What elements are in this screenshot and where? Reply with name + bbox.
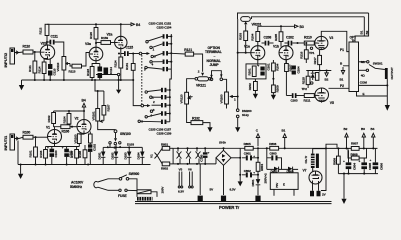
svg-text:Ch-Tr: Ch-Tr bbox=[304, 155, 308, 163]
ground bus channel2 bbox=[22, 79, 134, 81]
svg-text:100V: 100V bbox=[161, 186, 165, 194]
ground symbol PSU bbox=[341, 174, 346, 204]
svg-text:R159: R159 bbox=[101, 36, 108, 40]
svg-text:50/60Hz: 50/60Hz bbox=[70, 185, 82, 189]
triode V1 bbox=[46, 126, 62, 147]
arrow C feed bbox=[256, 129, 260, 147]
capacitor C111 bbox=[47, 35, 64, 57]
svg-text:+: + bbox=[359, 159, 361, 163]
svg-text:B1: B1 bbox=[340, 78, 344, 82]
svg-text:TP2: TP2 bbox=[302, 87, 308, 91]
node grid V2b bbox=[34, 51, 36, 53]
svg-text:C158 C159: C158 C159 bbox=[157, 131, 172, 135]
capacitor C158 bbox=[147, 111, 170, 117]
resistor R209 bbox=[272, 85, 280, 95]
wire jack ground drop bbox=[17, 141, 19, 165]
filter block1 left rail and ground bbox=[238, 148, 243, 186]
capacitor C203 bbox=[286, 93, 304, 102]
cap bank rail2 vertical bbox=[169, 88, 171, 122]
potentiometer VR121 bbox=[195, 77, 211, 88]
capacitor C110 bypass bbox=[48, 59, 56, 81]
supply rail to B4 arrow bbox=[47, 23, 131, 25]
svg-text:C202: C202 bbox=[286, 35, 294, 39]
svg-text:OUTPUT: OUTPUT bbox=[390, 67, 394, 79]
winding pad A bbox=[198, 164, 215, 201]
svg-text:R807: R807 bbox=[351, 142, 358, 146]
capacitor C806 bbox=[370, 148, 384, 173]
wire V4 plate to OPT P2 bbox=[329, 87, 350, 89]
svg-text:+: + bbox=[208, 151, 210, 155]
diode D182 bbox=[110, 147, 118, 164]
svg-text:AC100V: AC100V bbox=[71, 181, 84, 185]
arrow B1 psu bbox=[282, 129, 287, 149]
connector DM200 bbox=[236, 109, 251, 128]
svg-text:R805: R805 bbox=[244, 142, 251, 146]
svg-text:R123: R123 bbox=[86, 69, 90, 76]
capacitor C100 electrolytic bbox=[47, 146, 58, 165]
svg-text:V1a: V1a bbox=[244, 44, 250, 48]
capacitor C180 bbox=[199, 147, 209, 165]
cathode box V1a with R201 C201 bbox=[246, 63, 270, 81]
power transformer core bbox=[135, 202, 332, 204]
svg-text:R102: R102 bbox=[47, 115, 51, 122]
selector SW100 pole B contacts bbox=[138, 91, 155, 124]
svg-text:C111: C111 bbox=[51, 35, 59, 39]
svg-text:P1: P1 bbox=[340, 48, 344, 52]
capacitor C154 bbox=[147, 67, 171, 71]
resistor R111 bbox=[28, 52, 37, 80]
bridge top feed wire bbox=[206, 147, 327, 149]
svg-text:E: E bbox=[283, 183, 285, 187]
switch SW201 bbox=[369, 62, 385, 70]
svg-text:B3: B3 bbox=[300, 25, 304, 29]
svg-text:R132: R132 bbox=[192, 117, 200, 121]
cap bank labels top C150-C154 bbox=[149, 22, 172, 30]
capacitor C803 bbox=[267, 152, 282, 165]
ground symbol DM200 bbox=[235, 127, 240, 132]
svg-text:C204: C204 bbox=[296, 66, 300, 73]
arrow B4 psu bbox=[371, 127, 376, 148]
svg-text:VR110: VR110 bbox=[56, 62, 60, 71]
svg-text:VR120: VR120 bbox=[179, 94, 183, 103]
resistor R802 bbox=[157, 156, 173, 171]
svg-text:R105: R105 bbox=[70, 151, 74, 158]
B1 tap arrow OPT bbox=[340, 62, 350, 82]
svg-text:C803: C803 bbox=[270, 152, 277, 156]
svg-text:R217: R217 bbox=[313, 57, 317, 64]
capacitor C203b bbox=[302, 87, 308, 91]
svg-text:R203: R203 bbox=[239, 33, 243, 40]
svg-text:VR100: VR100 bbox=[73, 134, 77, 143]
heater rails bbox=[173, 147, 216, 165]
svg-text:POWER Tr: POWER Tr bbox=[219, 205, 240, 210]
capacitor C207 bbox=[292, 66, 301, 75]
wire jumper to VR200 bbox=[223, 79, 227, 92]
capacitor C157 bbox=[152, 103, 171, 107]
svg-text:Si-Br: Si-Br bbox=[219, 141, 227, 145]
svg-text:D103: D103 bbox=[127, 142, 134, 146]
supply rail B3 bbox=[258, 25, 304, 29]
svg-text:V1b: V1b bbox=[273, 44, 279, 48]
resistor R113 bbox=[69, 53, 90, 74]
svg-text:8Ω: 8Ω bbox=[361, 60, 366, 64]
wiper arrow VR121 bbox=[201, 73, 204, 76]
svg-text:R804: R804 bbox=[260, 164, 264, 171]
grid wire V1a bbox=[238, 52, 251, 54]
svg-text:C805: C805 bbox=[368, 163, 372, 170]
cathode row wire V1 bbox=[46, 146, 80, 148]
svg-text:B4: B4 bbox=[82, 99, 86, 103]
capacitor C115 coupling bbox=[114, 46, 142, 81]
svg-text:C102: C102 bbox=[92, 144, 96, 151]
heater chevron V4 pair bbox=[196, 148, 201, 164]
svg-text:C153 C154: C153 C154 bbox=[157, 26, 172, 30]
resistor R204 plate V1a bbox=[251, 26, 260, 45]
diode D802 bbox=[267, 165, 288, 173]
input jack INPUT/2 label bbox=[3, 52, 8, 68]
svg-text:C201: C201 bbox=[266, 63, 270, 70]
resistor R132 bbox=[191, 117, 210, 128]
resistor R105 bbox=[70, 147, 78, 165]
svg-text:+: + bbox=[253, 154, 255, 158]
input jack J1 bbox=[10, 134, 19, 150]
resistor R114 cathode bbox=[38, 59, 48, 81]
option terminal text block bbox=[205, 46, 222, 67]
svg-text:VR101: VR101 bbox=[91, 111, 95, 120]
resistor R102 plate load V1 bbox=[47, 111, 56, 127]
svg-text:B4: B4 bbox=[371, 127, 375, 131]
secondary tap 4 ohm bbox=[359, 69, 369, 77]
secondary tap COM bbox=[359, 81, 389, 87]
svg-text:B2: B2 bbox=[325, 77, 329, 81]
capacitor C153 bbox=[152, 60, 172, 64]
junction dots bus2 bbox=[34, 79, 93, 81]
svg-text:D184: D184 bbox=[137, 152, 141, 159]
ground symbol R209 bbox=[271, 95, 276, 100]
capacitor C152 bbox=[153, 51, 172, 56]
HV winding box 70V bbox=[270, 173, 298, 196]
svg-text:R202: R202 bbox=[248, 83, 252, 90]
arrow B3 psu bbox=[361, 127, 366, 148]
svg-text:C804: C804 bbox=[353, 163, 357, 170]
diode D803 bbox=[287, 167, 299, 174]
svg-text:C100: C100 bbox=[54, 150, 58, 157]
potentiometer VR100 bbox=[73, 132, 84, 146]
AC source label bbox=[70, 181, 84, 190]
svg-text:R110: R110 bbox=[23, 45, 31, 49]
resistor R159 grid V2a bbox=[96, 36, 115, 44]
diode row top wire bbox=[110, 144, 142, 148]
cap bank rail vertical bbox=[170, 34, 172, 88]
diode D181 bbox=[98, 147, 111, 164]
svg-text:JUMP: JUMP bbox=[210, 63, 220, 67]
feedback line lower bbox=[252, 17, 365, 19]
svg-text:R103: R103 bbox=[39, 150, 43, 157]
triode V3a bbox=[85, 42, 103, 61]
capacitor C102 bbox=[88, 143, 96, 165]
resistor R204b bbox=[272, 60, 280, 85]
svg-text:SW100: SW100 bbox=[120, 132, 131, 136]
resistor R210 bbox=[304, 35, 315, 45]
svg-text:R131: R131 bbox=[125, 63, 129, 70]
diode D801 bbox=[251, 179, 260, 201]
svg-text:R209: R209 bbox=[275, 85, 279, 92]
svg-text:C115: C115 bbox=[126, 46, 134, 50]
ground bus channel1 bbox=[18, 163, 151, 165]
svg-text:+: + bbox=[47, 146, 49, 150]
capacitor C114 and option ground bbox=[96, 67, 121, 94]
choke transformer Ch-Tr bbox=[304, 144, 337, 171]
supply line to VR101 bbox=[94, 79, 104, 91]
svg-text:D183: D183 bbox=[124, 152, 128, 159]
svg-text:R111: R111 bbox=[28, 65, 32, 72]
svg-text:R210: R210 bbox=[304, 35, 312, 39]
resistor R205 plate V1b bbox=[274, 26, 283, 47]
node plate V2b bbox=[46, 41, 48, 43]
resistor R805a bbox=[240, 142, 258, 150]
svg-text:SW900: SW900 bbox=[129, 172, 140, 176]
svg-text:–: – bbox=[214, 54, 216, 58]
svg-text:R106: R106 bbox=[62, 130, 70, 134]
svg-text:R101: R101 bbox=[29, 150, 33, 157]
svg-text:V3: V3 bbox=[329, 36, 333, 40]
triode V1a bbox=[244, 44, 265, 64]
heater chevron V2 pair bbox=[177, 148, 182, 164]
potentiometer VR110 bbox=[56, 57, 70, 81]
switch SW100 contacts bbox=[107, 142, 134, 150]
resistor R101 bbox=[29, 137, 38, 164]
capacitor C801 bbox=[242, 152, 258, 161]
arrow B4 top bbox=[131, 23, 140, 27]
capacitor C101 electrolytic bbox=[62, 146, 73, 165]
capacitor C202 bbox=[285, 35, 305, 45]
resistor R203 bbox=[239, 31, 248, 54]
svg-text:R104: R104 bbox=[62, 116, 66, 123]
svg-text:VR201: VR201 bbox=[252, 22, 262, 26]
pentode V3 bbox=[315, 36, 334, 50]
svg-text:+: + bbox=[343, 159, 345, 163]
arrow B2 psu bbox=[344, 127, 349, 148]
svg-text:B1: B1 bbox=[282, 129, 286, 133]
capacitor C150 bbox=[148, 34, 172, 41]
bridge rectifier Si-Br bbox=[216, 141, 231, 195]
svg-text:B2: B2 bbox=[344, 127, 348, 131]
ground symbol R202 bbox=[253, 94, 258, 99]
svg-text:TP1: TP1 bbox=[309, 51, 315, 55]
resistor R207 cathode V1b bbox=[285, 60, 293, 96]
triode V1b bbox=[273, 44, 293, 64]
resistor R215 bbox=[302, 71, 313, 89]
svg-text:INPUT/1: INPUT/1 bbox=[3, 135, 8, 151]
svg-text:V5: V5 bbox=[330, 101, 334, 105]
heater chevron V1 bbox=[150, 153, 158, 159]
resistor R809 bbox=[332, 148, 340, 173]
svg-text:4Ω: 4Ω bbox=[361, 74, 366, 78]
svg-text:6.3V: 6.3V bbox=[178, 190, 185, 194]
svg-text:R215: R215 bbox=[302, 77, 306, 84]
wire V2a plate to rail bbox=[120, 23, 122, 36]
svg-text:D181: D181 bbox=[98, 152, 102, 159]
svg-text:R216: R216 bbox=[300, 51, 304, 58]
cathode network V3a resistor R123 bbox=[86, 61, 96, 80]
svg-text:V5: V5 bbox=[179, 167, 183, 171]
resistor R108 bbox=[78, 145, 87, 165]
svg-text:V2: V2 bbox=[75, 117, 79, 121]
wire V3 plate to OPT P1 bbox=[321, 31, 349, 51]
svg-text:R107: R107 bbox=[106, 104, 110, 111]
svg-text:R204: R204 bbox=[275, 63, 279, 70]
svg-text:+: + bbox=[62, 146, 64, 150]
svg-text:FUSE: FUSE bbox=[118, 194, 127, 198]
potentiometer VR120 bbox=[179, 79, 194, 123]
switch SW100 pole A bbox=[114, 130, 131, 142]
cathode bypass C113 V3a bbox=[92, 64, 102, 81]
AC plug bbox=[94, 179, 108, 191]
selector SW100 pole B wiper bbox=[125, 52, 151, 107]
svg-text:R124: R124 bbox=[114, 60, 118, 67]
diode D183 bbox=[124, 147, 132, 164]
svg-text:R211: R211 bbox=[304, 99, 311, 103]
svg-text:R806: R806 bbox=[269, 142, 276, 146]
capacitor C804 bbox=[343, 150, 357, 173]
svg-text:D801: D801 bbox=[251, 179, 255, 186]
resistor R110 bbox=[23, 45, 34, 55]
svg-text:C203: C203 bbox=[291, 99, 298, 103]
arrow B2 feed power stage bbox=[325, 71, 329, 82]
resistor R211 bbox=[304, 94, 315, 103]
secondary tap E ground bbox=[357, 79, 388, 105]
PSU line from choke bbox=[325, 147, 351, 149]
input jack INPUT/1 label bbox=[3, 135, 8, 151]
wire jack to R110 bbox=[19, 51, 23, 54]
svg-text:R120: R120 bbox=[89, 32, 93, 39]
capacitor C805 bbox=[359, 158, 373, 174]
resistor R112 plate load bbox=[39, 24, 49, 45]
resistor R100 bbox=[19, 131, 47, 139]
resistor R804 bbox=[256, 147, 264, 179]
capacitor C151 bbox=[152, 42, 172, 48]
svg-text:+: + bbox=[370, 158, 372, 162]
resistor R109 bbox=[89, 132, 93, 144]
grid feed line vertical bbox=[237, 19, 239, 109]
svg-text:C114: C114 bbox=[109, 67, 113, 74]
resistor R107 bbox=[102, 91, 110, 121]
power transformer primary winding bbox=[137, 197, 153, 201]
secondary tap 8 ohm bbox=[359, 60, 369, 64]
pentode V4 bbox=[314, 88, 334, 105]
svg-text:R113: R113 bbox=[69, 69, 76, 73]
capacitor C802 bbox=[242, 169, 258, 177]
winding pad B bbox=[221, 188, 237, 202]
resistor R806 bbox=[258, 142, 290, 169]
resistor R103 bbox=[39, 147, 47, 165]
potentiometer VR201 bbox=[241, 17, 262, 31]
svg-text:C180: C180 bbox=[199, 154, 203, 161]
svg-text:VR200: VR200 bbox=[219, 94, 223, 103]
ground symbol channel1 bbox=[18, 165, 23, 180]
svg-text:R802: R802 bbox=[161, 166, 168, 170]
switch SW900 bbox=[108, 172, 139, 197]
svg-text:B4: B4 bbox=[136, 23, 140, 27]
svg-text:Si-ky: Si-ky bbox=[242, 113, 249, 117]
resistor R808 bbox=[348, 148, 367, 160]
selector S4a contacts bbox=[144, 41, 156, 72]
capacitor C156 bbox=[152, 95, 171, 99]
rectifier tube V7 bbox=[303, 169, 327, 197]
ground symbol R132 bbox=[207, 127, 212, 132]
svg-text:V6: V6 bbox=[188, 167, 192, 171]
arrow B4 feed bbox=[82, 99, 86, 112]
output transformer OPT box bbox=[340, 36, 359, 92]
svg-text:C806: C806 bbox=[379, 163, 383, 170]
svg-text:R108: R108 bbox=[78, 151, 82, 158]
heater winding drops V5 V6 bbox=[178, 167, 193, 193]
cap bank labels bottom C155-C159 bbox=[149, 128, 172, 136]
wire R110 to V2b grid bbox=[33, 51, 40, 53]
resistor R104 bbox=[62, 111, 71, 127]
fuse bbox=[108, 189, 157, 198]
supply rail channel1 bbox=[54, 110, 85, 112]
vertical link to V7 winding bbox=[321, 148, 326, 190]
svg-text:R114: R114 bbox=[38, 66, 42, 73]
mid wire row power stage bbox=[306, 69, 331, 71]
option terminal jumper link bbox=[210, 71, 222, 81]
ground symbol output bbox=[385, 105, 390, 111]
potentiometer VR200 bbox=[219, 92, 237, 109]
svg-text:V3a: V3a bbox=[85, 42, 91, 46]
input jack J2 bbox=[10, 48, 19, 64]
svg-text:R204: R204 bbox=[251, 33, 255, 40]
heater chevron V3 pair bbox=[186, 148, 191, 164]
capacitor C155 bbox=[147, 88, 171, 92]
svg-text:6.3V: 6.3V bbox=[230, 188, 237, 192]
svg-text:VR121: VR121 bbox=[196, 84, 206, 88]
potentiometer VR101 bbox=[91, 90, 115, 130]
svg-text:D182: D182 bbox=[110, 152, 114, 159]
wire V2 plate to rail bbox=[83, 111, 85, 120]
resistor R216 grid stopper V3 bbox=[300, 43, 315, 63]
svg-text:SW201: SW201 bbox=[373, 62, 383, 66]
svg-text:R809: R809 bbox=[332, 158, 336, 165]
resistor R202 bbox=[248, 82, 257, 94]
triode V2 bbox=[75, 117, 92, 135]
triode V2a bbox=[107, 33, 128, 49]
resistor R218 bbox=[315, 73, 319, 81]
svg-text:V1: V1 bbox=[150, 154, 154, 158]
ground symbol channel2 bbox=[19, 80, 24, 90]
svg-text:R201: R201 bbox=[248, 68, 252, 75]
svg-text:C801: C801 bbox=[244, 152, 251, 156]
svg-text:R112: R112 bbox=[39, 27, 43, 34]
capacitor C159 bbox=[140, 120, 169, 124]
svg-text:E: E bbox=[363, 92, 365, 96]
svg-text:V1: V1 bbox=[46, 126, 50, 130]
bridge output wire bbox=[231, 157, 240, 159]
feedback vertical taps bbox=[355, 13, 369, 42]
svg-text:B3: B3 bbox=[361, 127, 365, 131]
svg-text:B1: B1 bbox=[359, 30, 363, 34]
triode V2b bbox=[40, 42, 54, 60]
svg-text:B2: B2 bbox=[365, 30, 369, 34]
svg-text:V2a: V2a bbox=[107, 33, 113, 37]
resistor R106 bbox=[55, 125, 78, 134]
resistor R807 bbox=[351, 142, 378, 151]
svg-text:INPUT/2: INPUT/2 bbox=[3, 52, 8, 68]
diode D184 bbox=[137, 147, 145, 164]
svg-text:C208: C208 bbox=[264, 35, 272, 39]
wiper arrow VR101 bbox=[100, 120, 104, 123]
svg-text:+: + bbox=[253, 171, 255, 175]
